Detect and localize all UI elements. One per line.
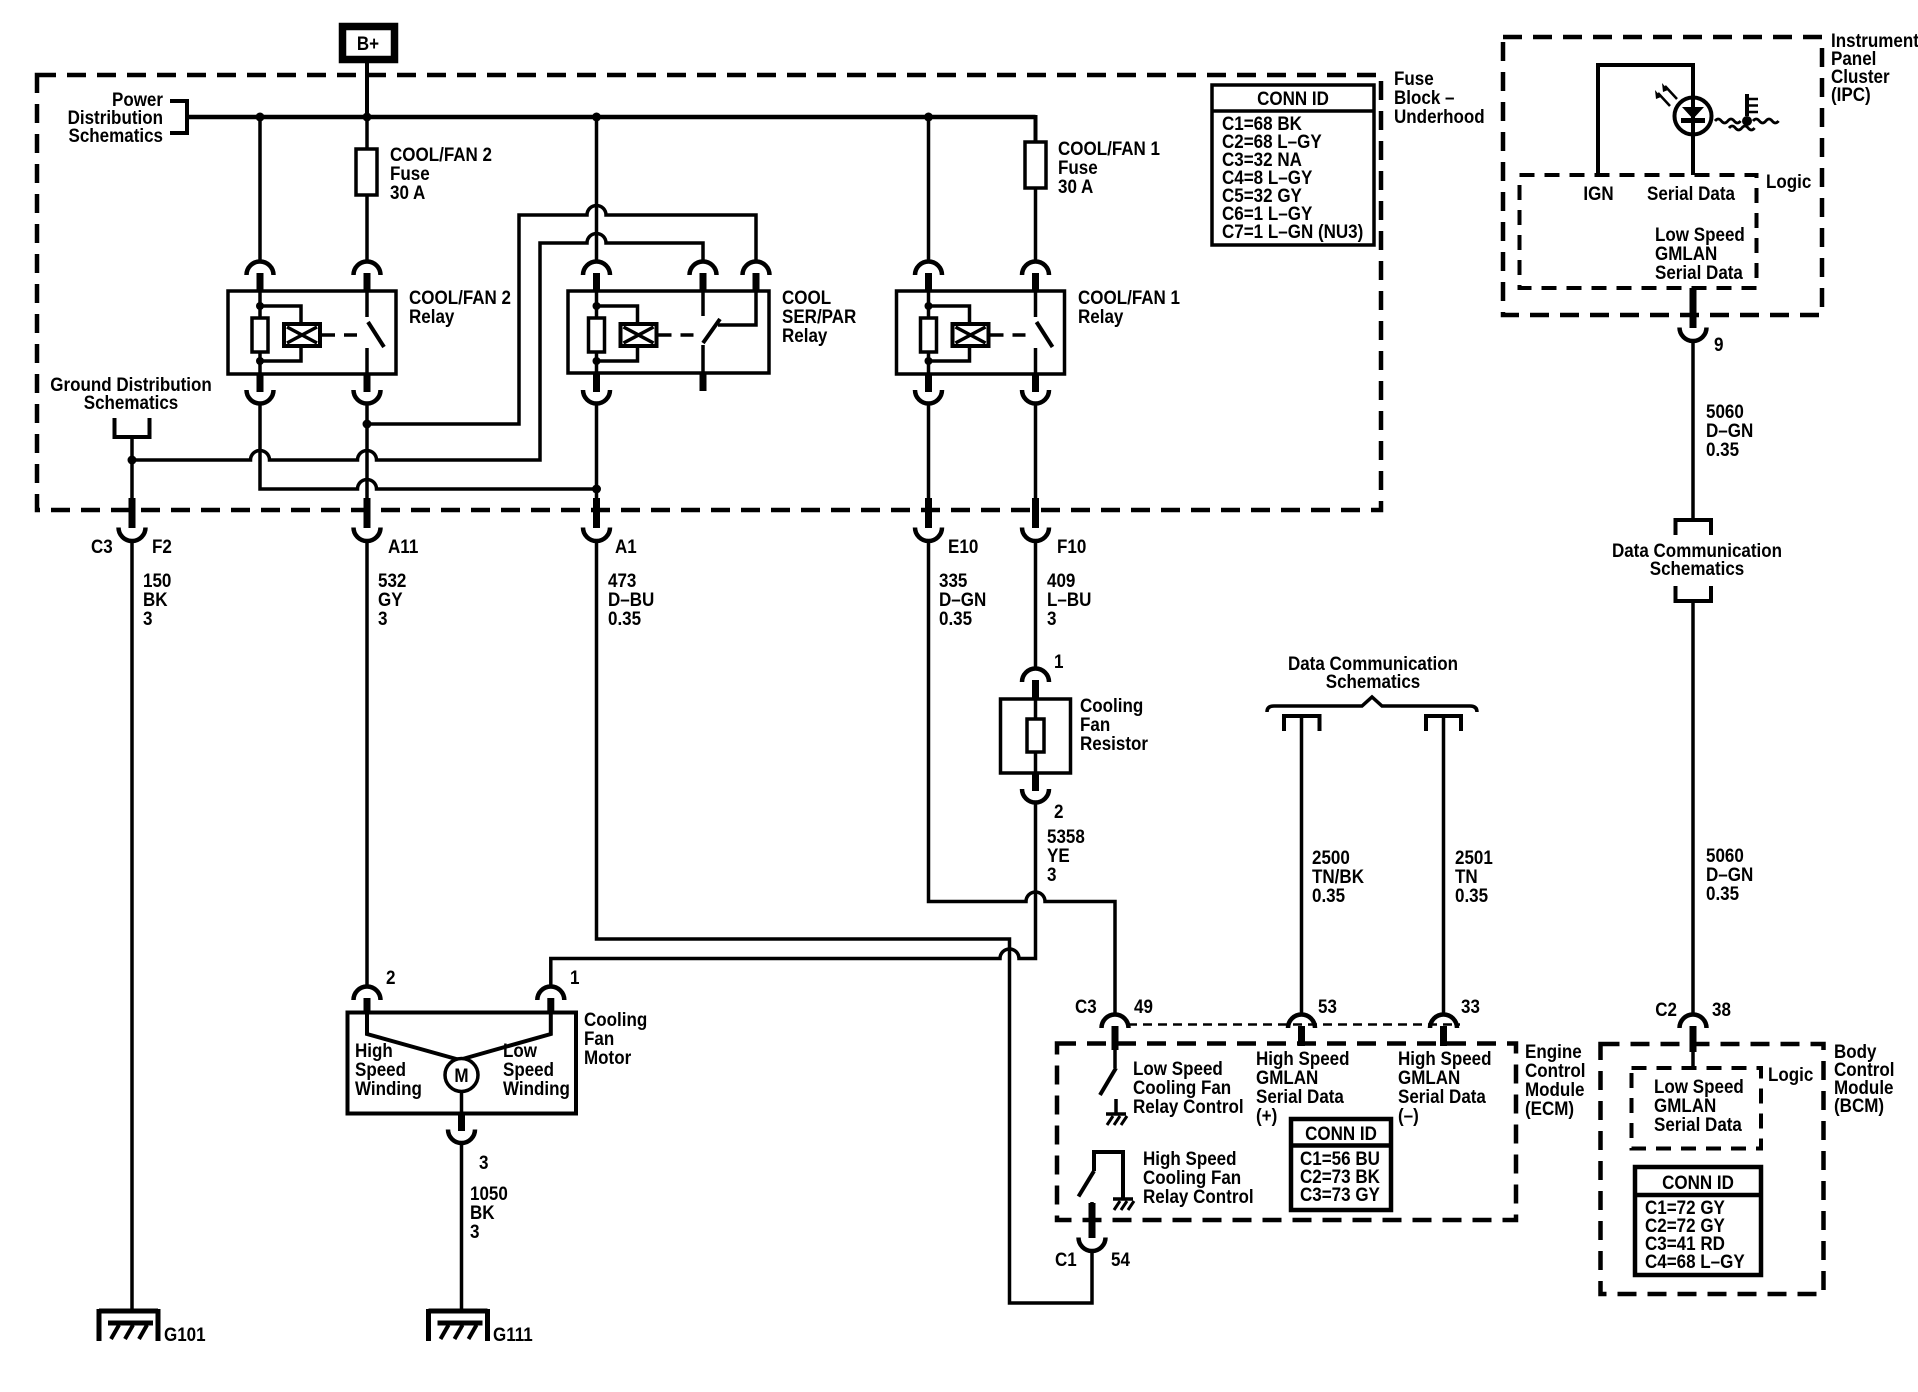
fuse COOL/FAN 2 30A (356, 144, 492, 204)
svg-text:33: 33 (1461, 996, 1480, 1018)
connector above ser/par coil pin (583, 262, 610, 276)
svg-text:(–): (–) (1398, 1105, 1419, 1127)
ECM dashed box (1057, 1044, 1516, 1221)
svg-text:3: 3 (378, 608, 388, 630)
label High Speed GMLAN Serial Data (+) (1256, 1048, 1350, 1127)
label Instrument Panel Cluster (IPC) (1831, 30, 1918, 106)
ground G101 (99, 1309, 158, 1341)
label Fuse Block - Underhood (1394, 68, 1485, 128)
svg-text:Relay: Relay (782, 325, 828, 347)
wire: ser/par coil low to A1 (595, 404, 599, 498)
label High Speed GMLAN Serial Data (-) (1398, 1048, 1492, 1127)
svg-text:Serial Data: Serial Data (1655, 262, 1743, 284)
fuse COOL/FAN 1 30A (1025, 138, 1160, 198)
svg-text:Schematics: Schematics (84, 392, 179, 414)
svg-text:F10: F10 (1057, 536, 1086, 558)
svg-text:Underhood: Underhood (1394, 106, 1485, 128)
svg-text:0.35: 0.35 (1455, 885, 1488, 907)
svg-text:2: 2 (386, 967, 396, 989)
svg-text:3: 3 (470, 1221, 480, 1243)
CONN ID table (fuse block) (1212, 85, 1374, 245)
svg-text:54: 54 (1111, 1249, 1130, 1271)
svg-text:30 A: 30 A (390, 182, 425, 204)
svg-text:38: 38 (1712, 999, 1731, 1021)
high speed fan relay driver switch (1079, 1152, 1124, 1220)
chassis ground (low speed driver) (1106, 1114, 1127, 1125)
wire: relay1 switch to ser/par relay input (hop at 596.5) (367, 206, 756, 425)
cooling fan motor box (348, 1013, 577, 1114)
connector below relay1 coil (257, 374, 264, 392)
connector below relay3 coil (925, 374, 932, 392)
chassis ground (high speed driver) (1113, 1199, 1134, 1210)
fuse block underhood dashed box (37, 75, 1381, 510)
node: A1 junction (592, 485, 601, 494)
svg-text:A1: A1 (615, 536, 637, 558)
svg-text:Relay Control: Relay Control (1143, 1186, 1254, 1208)
svg-text:Schematics: Schematics (1650, 558, 1745, 580)
node: bus junction at x=596.5 (592, 113, 601, 122)
relay K3 COOL/FAN 1 Relay box (897, 291, 1065, 374)
wire: bus drop to relay3 coil (927, 117, 931, 262)
svg-text:C7=1 L–GN (NU3): C7=1 L–GN (NU3) (1222, 221, 1363, 243)
wire: bus drop to relay1 coil (258, 117, 262, 262)
svg-text:Winding: Winding (503, 1078, 570, 1100)
connector above relay3 coil pin (915, 262, 942, 276)
wire: relay1 switch out down to A11 (365, 404, 369, 498)
svg-text:C3: C3 (1075, 996, 1097, 1018)
svg-text:Logic: Logic (1766, 171, 1811, 193)
connector A1 at fuse block exit (593, 498, 600, 528)
wire 473 D-BU 0.35 to ECM pin 54 (via loop) (597, 542, 1093, 1304)
wire: ground dist down to C3/F2 (130, 460, 134, 498)
svg-text:0.35: 0.35 (1312, 885, 1345, 907)
svg-text:CONN ID: CONN ID (1305, 1123, 1377, 1145)
svg-text:Schematics: Schematics (1326, 671, 1421, 693)
wire 532 GY 3 to motor pin 2 (365, 542, 369, 987)
connector F10 at fuse block exit (1032, 498, 1039, 528)
svg-text:C3: C3 (91, 536, 113, 558)
IPC logic dashed box (1520, 175, 1757, 288)
wire 1050 BK 3 to G111 (460, 1144, 464, 1312)
motor M symbol (445, 1059, 478, 1092)
CONN ID table (ECM) (1291, 1119, 1391, 1210)
connector A11 at fuse block exit (364, 498, 371, 528)
svg-text:Serial Data: Serial Data (1647, 183, 1735, 205)
svg-text:F2: F2 (152, 536, 172, 558)
svg-text:Schematics: Schematics (69, 125, 164, 147)
relay K3 switch (1036, 291, 1053, 374)
svg-text:Resistor: Resistor (1080, 733, 1148, 755)
connector above relay3 switch pin (1022, 262, 1049, 276)
wire 335 D-GN 0.35 to ECM pin 49 (hop at 1035.5) (929, 542, 1116, 1015)
relay K1 coil-to-switch dashed link (322, 333, 362, 337)
svg-text:3: 3 (1047, 608, 1057, 630)
svg-text:3: 3 (143, 608, 153, 630)
svg-text:0.35: 0.35 (939, 608, 972, 630)
wire 409 L-BU 3 to resistor pin 1 (1034, 542, 1038, 669)
svg-text:1: 1 (1054, 651, 1064, 673)
connector ECM pin 54 (1089, 1203, 1096, 1238)
coolant temperature icon (1715, 94, 1779, 130)
svg-text:CONN ID: CONN ID (1257, 88, 1329, 110)
svg-text:E10: E10 (948, 536, 978, 558)
wire 2501 TN 0.35 to ECM pin 33 (1442, 716, 1446, 1014)
ground distribution schematics reference (50, 374, 212, 460)
relay K2 unused bottom stub (700, 374, 707, 391)
connector below relay1 switch (364, 374, 371, 392)
svg-text:(+): (+) (1256, 1105, 1277, 1127)
ECM connector face dashed line (1128, 1023, 1460, 1026)
node: bus junction at x=928.5 (924, 113, 933, 122)
wire: ground dist line to ser/par switch pin 30 (hops at 260,367, up at 540, hop at 596.5) (132, 234, 703, 461)
node: bus junction at x=367 (363, 113, 372, 122)
svg-text:Motor: Motor (584, 1047, 632, 1069)
wire 5060 D-GN 0.35 (upper) (1691, 342, 1695, 519)
wire: B+ feed bus (187, 115, 1036, 120)
svg-text:C3=73 GY: C3=73 GY (1300, 1184, 1380, 1206)
svg-text:3: 3 (1047, 864, 1057, 886)
svg-text:Relay: Relay (409, 306, 455, 328)
wire 5060 D-GN 0.35 (lower) (1691, 601, 1695, 1014)
svg-text:A11: A11 (388, 536, 418, 558)
ground G111 (429, 1309, 488, 1341)
wire: bus corner to COOL/FAN1 fuse (1034, 115, 1038, 142)
connector pair above relay1 switch pin (354, 262, 381, 276)
svg-text:Logic: Logic (1768, 1064, 1813, 1086)
wire: fuse to relay1 switch connector (365, 195, 369, 262)
svg-text:Winding: Winding (355, 1078, 422, 1100)
connector above ser/par switch pin (690, 262, 717, 276)
svg-text:2: 2 (1054, 801, 1064, 823)
wire: fuse to relay3 switch connector (1034, 188, 1038, 262)
data communication schematics reference (middle) (1267, 653, 1477, 731)
svg-text:IGN: IGN (1583, 183, 1613, 205)
svg-text:9: 9 (1714, 334, 1724, 356)
svg-text:G111: G111 (493, 1324, 533, 1346)
connector pair above relay1 coil pin (247, 262, 274, 276)
power distribution schematics reference bracket (68, 89, 187, 147)
low speed fan relay driver switch (1100, 1050, 1116, 1114)
svg-text:0.35: 0.35 (608, 608, 641, 630)
svg-text:1: 1 (570, 967, 580, 989)
label Engine Control Module (ECM) (1525, 1041, 1586, 1120)
wire 150 BK 3 to G101 (130, 542, 134, 1312)
indicator LED (1655, 83, 1712, 135)
wire 5358 YE 3 to motor pin 1 (hop at 1009.5) (551, 803, 1036, 986)
svg-text:Serial Data: Serial Data (1654, 1114, 1742, 1136)
svg-text:(BCM): (BCM) (1834, 1095, 1884, 1117)
node: bus junction at x=260 (256, 113, 265, 122)
wire: relay1 coil low side to A1 node (hop at 367) (260, 404, 597, 489)
data communication schematics reference (right) (1612, 520, 1782, 601)
svg-text:Relay: Relay (1078, 306, 1124, 328)
svg-text:53: 53 (1318, 996, 1337, 1018)
relay K3 coil-to-switch dashed link (991, 333, 1031, 337)
relay K2 coil branch (589, 291, 657, 374)
svg-text:0.35: 0.35 (1706, 883, 1739, 905)
connector below ser/par coil (593, 374, 600, 392)
svg-text:0.35: 0.35 (1706, 439, 1739, 461)
IPC indicator circuit wiring (1598, 65, 1693, 175)
svg-text:C2: C2 (1655, 999, 1677, 1021)
node: ground dist junction (128, 456, 137, 465)
wire: bus to COOL/FAN2 fuse (365, 117, 369, 149)
wire: bus drop to ser/par relay coil (595, 117, 599, 262)
relay K2 switch (703, 291, 756, 374)
wire: B+ drop (365, 60, 369, 117)
B+ battery terminal (343, 27, 395, 60)
svg-text:M: M (454, 1065, 468, 1087)
BCM dashed box (1601, 1044, 1824, 1294)
relay K2 COOL SER/PAR Relay box (568, 291, 769, 373)
svg-text:(IPC): (IPC) (1831, 84, 1871, 106)
relay K1 switch (367, 291, 384, 374)
node: relay1 switch junction (363, 420, 372, 429)
connector above ser/par right pin (743, 262, 770, 276)
svg-text:49: 49 (1134, 996, 1153, 1018)
svg-text:Relay Control: Relay Control (1133, 1096, 1244, 1118)
svg-text:B+: B+ (357, 33, 379, 55)
connector E10 at fuse block exit (925, 498, 932, 528)
relay K1 coil branch (252, 291, 320, 374)
label Body Control Module (BCM) (1834, 1041, 1895, 1117)
motor windings wiring (367, 1013, 467, 1063)
wire: relay3 coil low to E10 (927, 404, 931, 498)
svg-text:G101: G101 (164, 1324, 206, 1346)
relay K2 coil-to-switch dashed link (659, 333, 695, 337)
wire 2500 TN/BK 0.35 to ECM pin 53 (1300, 716, 1304, 1014)
connector IPC pin 9 (1690, 288, 1697, 328)
cooling fan resistor (1001, 695, 1149, 773)
connector resistor pin 2 (1032, 773, 1039, 791)
wire: relay3 switch out to F10 (1034, 404, 1038, 498)
connector C3/F2 at fuse block exit (129, 498, 136, 528)
connector below relay3 switch (1032, 374, 1039, 392)
connector motor pin 3 (460, 1092, 464, 1114)
svg-text:CONN ID: CONN ID (1662, 1172, 1734, 1194)
svg-text:3: 3 (479, 1152, 489, 1174)
svg-text:C1: C1 (1055, 1249, 1077, 1271)
svg-text:30 A: 30 A (1058, 176, 1093, 198)
IPC dashed box (1503, 37, 1822, 315)
BCM logic dashed box (1632, 1068, 1762, 1149)
relay K1 COOL/FAN 2 Relay box (228, 291, 396, 374)
svg-text:C4=68 L–GY: C4=68 L–GY (1645, 1251, 1745, 1273)
svg-text:(ECM): (ECM) (1525, 1098, 1574, 1120)
relay K3 coil branch (921, 291, 989, 374)
CONN ID table (BCM) (1635, 1167, 1761, 1275)
